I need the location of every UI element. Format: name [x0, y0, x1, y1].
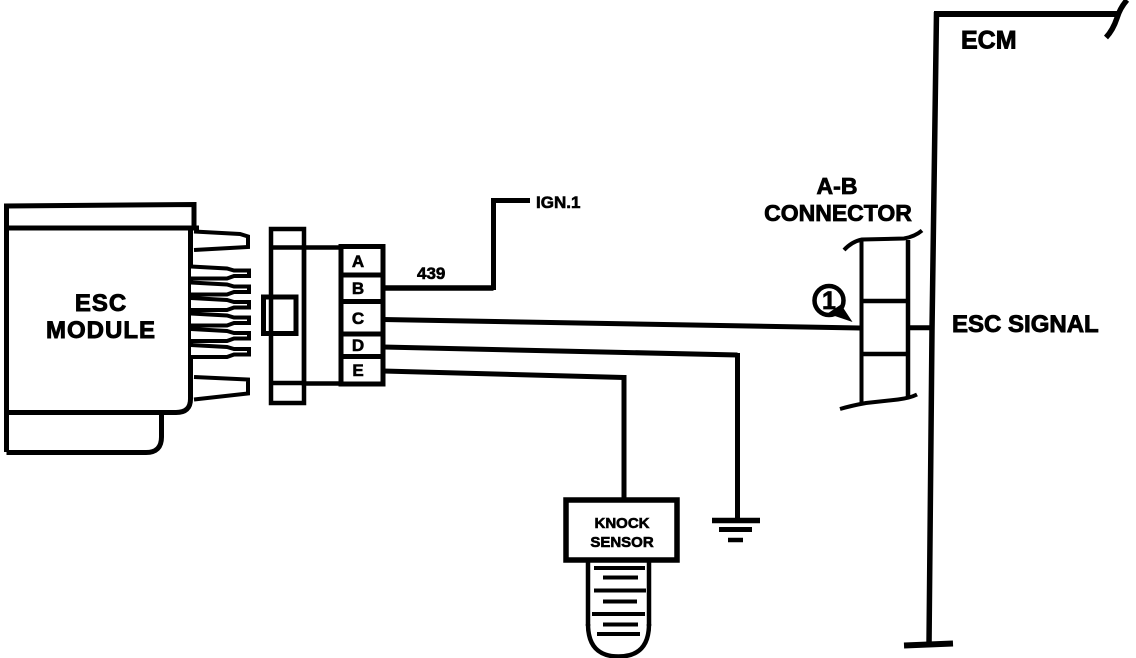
pin divider D/E: [341, 354, 383, 359]
wire pin D down to ground: [735, 353, 740, 520]
knock sensor body left side: [586, 560, 591, 626]
knock sensor body right side: [647, 560, 652, 626]
module pin tooth top (large): [194, 232, 248, 251]
knock sensor body bottom arc: [588, 624, 649, 657]
knock sensor thread line 6: [603, 623, 638, 627]
knock sensor thread line 1: [594, 566, 645, 570]
wire stub to IGN.1: [491, 198, 530, 203]
module pin tooth 4: [191, 314, 249, 326]
ESC module top bar bottom line: [7, 226, 200, 231]
knock sensor thread line 4: [603, 600, 637, 604]
A-B connector divider 1: [862, 299, 909, 304]
svg-text:A-B: A-B: [817, 173, 858, 199]
knock sensor thread line 3: [594, 589, 646, 593]
ECM bottom chassis bar: [904, 644, 953, 646]
connector body box: [304, 248, 341, 384]
A-B connector divider 2: [862, 352, 909, 357]
svg-text:ESC SIGNAL: ESC SIGNAL: [952, 311, 1099, 338]
connector latch square: [264, 297, 297, 334]
A-B connector top swash: [844, 231, 922, 251]
svg-text:439: 439: [417, 264, 445, 283]
pin divider B/C: [341, 299, 383, 304]
wire pin E down to knock sensor: [622, 375, 627, 500]
svg-text:E: E: [352, 361, 363, 380]
connector bar bottom divider: [271, 381, 304, 386]
svg-text:IGN.1: IGN.1: [536, 193, 580, 212]
ESC module top bar: [7, 205, 195, 230]
module pin tooth 3: [191, 298, 249, 310]
connector bar top divider: [271, 245, 304, 250]
pin divider A/B: [341, 273, 383, 278]
wire 439 vertical to IGN.1: [491, 201, 496, 291]
module pin tooth bottom (large): [194, 377, 248, 400]
svg-text:CONNECTOR: CONNECTOR: [764, 200, 912, 226]
svg-text:C: C: [352, 309, 364, 328]
ESC module main box bottom and right edge: [7, 228, 191, 413]
svg-text:A: A: [352, 252, 364, 271]
svg-text:B: B: [352, 279, 364, 298]
svg-text:ESC: ESC: [75, 290, 127, 317]
A-B connector right vertical: [906, 240, 911, 399]
A-B connector left vertical: [860, 241, 864, 404]
wire 439 from pin B: [383, 285, 494, 291]
svg-text:MODULE: MODULE: [46, 317, 156, 344]
wire ESC signal from pin C: [383, 320, 860, 329]
ground bar 2: [719, 527, 752, 532]
ground bar 3: [728, 538, 743, 543]
pin divider C/D: [341, 332, 383, 337]
callout circle 1: [815, 286, 844, 315]
module pin tooth 1: [191, 267, 249, 279]
wire A-B connector to ECM: [908, 325, 933, 330]
callout tail: [828, 305, 853, 323]
svg-text:KNOCK: KNOCK: [595, 515, 650, 532]
module pin tooth 5: [191, 329, 249, 341]
knock sensor thread line 2: [603, 576, 638, 580]
pin block outline: [341, 247, 383, 385]
ECM vertical line: [929, 12, 937, 646]
wire from pin E: [383, 371, 624, 378]
ESC module lower extension box: [7, 413, 162, 453]
module pin tooth 6: [191, 345, 249, 357]
svg-text:SENSOR: SENSOR: [590, 534, 654, 551]
ECM top-right swash: [1106, 0, 1127, 38]
ECM top horizontal line: [934, 11, 1117, 17]
svg-text:D: D: [352, 336, 364, 355]
svg-text:ECM: ECM: [961, 27, 1017, 55]
A-B connector bottom swash: [840, 395, 917, 410]
knock sensor thread line 7: [597, 632, 640, 636]
ESC module left edge: [4, 206, 9, 452]
connector bar: [271, 229, 304, 403]
wire from pin D: [383, 347, 738, 355]
ground bar 1: [712, 518, 760, 524]
module pin tooth 2: [191, 283, 249, 295]
knock sensor thread line 5: [592, 612, 645, 616]
knock sensor box: [566, 500, 677, 560]
